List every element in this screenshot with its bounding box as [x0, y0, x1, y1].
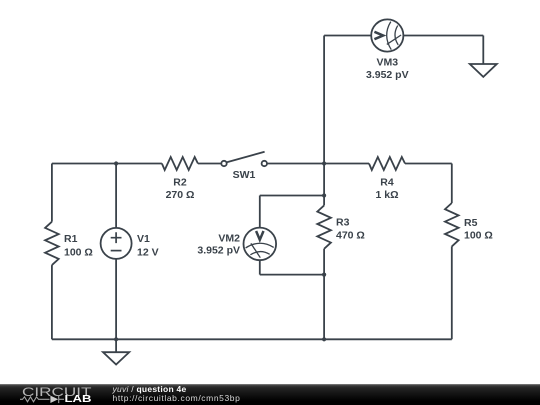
svg-text:R2: R2: [173, 177, 187, 189]
svg-text:3.952 pV: 3.952 pV: [197, 245, 240, 257]
svg-text:VM3: VM3: [377, 57, 399, 69]
svg-text:R5: R5: [464, 217, 478, 229]
svg-text:1 kΩ: 1 kΩ: [375, 189, 398, 201]
svg-text:LAB: LAB: [65, 394, 92, 405]
svg-text:R1: R1: [64, 233, 78, 245]
svg-text:V1: V1: [137, 233, 150, 245]
svg-text:3.952 pV: 3.952 pV: [366, 69, 409, 81]
svg-text:270 Ω: 270 Ω: [166, 189, 195, 201]
svg-text:R3: R3: [336, 217, 350, 229]
svg-text:12 V: 12 V: [137, 247, 159, 259]
svg-text:100 Ω: 100 Ω: [64, 247, 93, 259]
svg-text:VM2: VM2: [218, 232, 240, 244]
svg-text:R4: R4: [380, 177, 394, 189]
svg-text:SW1: SW1: [233, 169, 256, 181]
svg-text:470 Ω: 470 Ω: [336, 229, 365, 241]
svg-text:100 Ω: 100 Ω: [464, 230, 493, 242]
